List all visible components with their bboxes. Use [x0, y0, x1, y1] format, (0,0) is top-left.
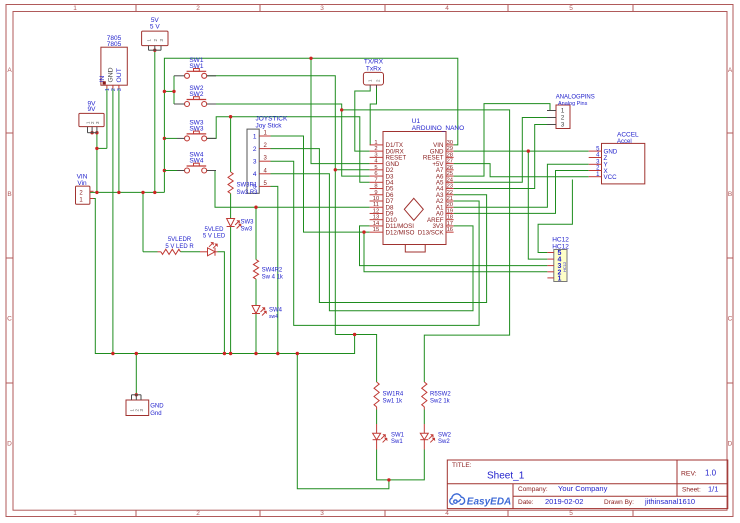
- svg-text:3: 3: [374, 152, 377, 158]
- connector GND: [126, 400, 149, 416]
- wire +5V to ACCEL VCC: [454, 164, 589, 177]
- svg-text:D12/MISO: D12/MISO: [386, 229, 415, 236]
- wire A1 to ACCEL Y: [454, 164, 589, 207]
- resistor 5VLEDR: [143, 251, 158, 253]
- svg-text:16: 16: [447, 227, 453, 233]
- wire 7805 GND down to ground trunk: [112, 89, 114, 354]
- svg-text:22: 22: [447, 190, 453, 196]
- svg-text:SW3R1: SW3R1: [237, 183, 258, 189]
- wire joystick pin1 to D12/MISO: [271, 136, 370, 232]
- svg-text:sw4: sw4: [269, 314, 278, 320]
- svg-text:Accel: Accel: [617, 139, 632, 145]
- svg-text:2: 2: [561, 115, 565, 122]
- svg-text:Sw2 1k: Sw2 1k: [430, 399, 451, 405]
- svg-text:Company:: Company:: [518, 486, 548, 493]
- svg-text:5 V: 5 V: [150, 24, 160, 31]
- svg-text:SW3: SW3: [189, 125, 203, 132]
- svg-text:R5SW2: R5SW2: [430, 391, 451, 397]
- wire joystick pin5 to ground trunk: [271, 186, 278, 353]
- wire ground trunk to GND connector: [135, 354, 137, 395]
- wire A6 to ANALOGPINS pin1: [454, 104, 556, 177]
- svg-text:SW1: SW1: [189, 63, 203, 70]
- svg-text:SW3: SW3: [241, 220, 255, 226]
- wire A0 to ACCEL X: [454, 171, 589, 214]
- svg-text:26: 26: [447, 165, 453, 171]
- svg-text:A: A: [728, 67, 733, 74]
- svg-text:20: 20: [447, 202, 453, 208]
- svg-text:2: 2: [253, 146, 257, 153]
- svg-text:Sw2: Sw2: [438, 439, 450, 445]
- wire SW4 right to D8: [206, 171, 369, 208]
- svg-text:TxRx: TxRx: [366, 66, 382, 73]
- switch SW3: [185, 136, 190, 141]
- svg-text:HC12: HC12: [552, 237, 569, 244]
- svg-text:2: 2: [196, 510, 200, 517]
- svg-text:6: 6: [374, 171, 377, 177]
- svg-text:Sheet:: Sheet:: [682, 487, 701, 494]
- svg-text:12: 12: [373, 208, 379, 214]
- svg-text:9: 9: [374, 190, 377, 196]
- svg-text:TITLE:: TITLE:: [452, 462, 472, 469]
- wire R5SW2 resistor to LED: [423, 407, 425, 410]
- wire SW1R4 resistor to LED: [376, 407, 378, 410]
- svg-text:5 V LED R: 5 V LED R: [165, 244, 194, 250]
- wire SW4R2 branch: [255, 207, 257, 259]
- svg-text:5: 5: [374, 165, 377, 171]
- wire SW1R4 loop: [335, 335, 376, 383]
- U1 diamond mark: [404, 198, 423, 220]
- svg-text:SW2: SW2: [189, 91, 203, 98]
- svg-text:Sw3: Sw3: [241, 227, 253, 233]
- svg-text:ANALOGPINS: ANALOGPINS: [556, 95, 595, 101]
- svg-text:4: 4: [445, 510, 449, 517]
- svg-text:5 V LED: 5 V LED: [203, 233, 226, 239]
- svg-text:Sw1 1k: Sw1 1k: [383, 399, 404, 405]
- connector TXRX: [363, 72, 383, 85]
- switch SW4: [185, 168, 190, 173]
- module HC12: [554, 250, 567, 282]
- svg-text:23: 23: [447, 184, 453, 190]
- resistor SW1R4: [374, 382, 379, 407]
- svg-text:1.0: 1.0: [705, 469, 717, 478]
- svg-text:TX/RX: TX/RX: [364, 59, 384, 66]
- connector 9V: [79, 113, 104, 126]
- svg-text:1: 1: [561, 108, 565, 115]
- svg-text:1: 1: [374, 140, 377, 146]
- svg-text:1: 1: [73, 510, 77, 517]
- svg-text:11: 11: [373, 202, 379, 208]
- wire A4 to ANALOGPINS pin3: [454, 125, 556, 189]
- svg-text:Sw1: Sw1: [391, 439, 403, 445]
- connector VIN: [76, 186, 90, 204]
- svg-text:4: 4: [445, 5, 449, 12]
- resistor SW4R2: [253, 260, 258, 280]
- wire VCC branch to HC12 pin5: [538, 180, 572, 253]
- svg-text:3: 3: [253, 159, 257, 166]
- svg-text:Drawn By:: Drawn By:: [604, 499, 634, 506]
- wire VIN trunk horizontal: [90, 191, 164, 193]
- svg-text:15: 15: [373, 227, 379, 233]
- svg-text:3: 3: [561, 122, 565, 129]
- svg-text:EasyEDA: EasyEDA: [467, 496, 511, 507]
- connector ANALOGPINS: [556, 105, 570, 129]
- U1 usb rectangle: [405, 245, 425, 253]
- svg-text:ACCEL: ACCEL: [617, 132, 639, 139]
- svg-text:D: D: [728, 441, 733, 448]
- svg-text:ARDUINO_NANO: ARDUINO_NANO: [412, 125, 464, 132]
- wire GND branch to HC12 pin4: [528, 151, 547, 259]
- svg-text:SW1R4: SW1R4: [383, 391, 404, 397]
- wire 7805 IN down: [106, 89, 108, 149]
- LED SW4: [252, 306, 260, 314]
- svg-text:28: 28: [447, 152, 453, 158]
- svg-text:3: 3: [117, 88, 123, 91]
- wire SW4 LED column: [255, 279, 257, 305]
- wire SW3 right trunk to D4: [206, 117, 369, 183]
- svg-text:B: B: [728, 191, 732, 198]
- svg-text:C: C: [728, 316, 733, 323]
- svg-text:3: 3: [320, 510, 324, 517]
- wire 3V3 to joystick pin4: [271, 174, 474, 311]
- svg-text:SW4R2: SW4R2: [262, 268, 283, 274]
- svg-text:Vin: Vin: [77, 180, 87, 187]
- wire 5V rail: [154, 50, 156, 192]
- wire top trunk drop to D2 GND pin: [311, 58, 370, 163]
- svg-text:27: 27: [447, 159, 453, 165]
- svg-text:2019-02-02: 2019-02-02: [545, 497, 583, 506]
- svg-text:SW4: SW4: [269, 308, 283, 314]
- wire 7805 OUT down to VIN trunk: [118, 89, 120, 193]
- svg-text:Sw3 R3: Sw3 R3: [237, 190, 259, 196]
- svg-text:HC12: HC12: [562, 261, 567, 272]
- svg-text:Gnd: Gnd: [150, 411, 161, 417]
- svg-text:24: 24: [447, 177, 454, 183]
- wire SW3R1 column top: [230, 117, 232, 172]
- svg-text:3: 3: [320, 5, 324, 12]
- title block: [447, 460, 728, 509]
- svg-text:GND: GND: [150, 404, 164, 410]
- module ACCEL: [602, 143, 645, 184]
- svg-text:21: 21: [447, 196, 453, 202]
- switch SW1: [185, 73, 190, 78]
- svg-text:Your Company: Your Company: [558, 484, 608, 493]
- svg-text:1: 1: [558, 275, 562, 282]
- IC U1 ARDUINO_NANO: [383, 132, 446, 245]
- svg-text:Analog Pins: Analog Pins: [558, 101, 588, 107]
- LED SW2: [423, 424, 425, 433]
- wire SW1 right to D2 and SW1R4: [206, 76, 335, 335]
- svg-text:13: 13: [373, 215, 379, 221]
- svg-text:5: 5: [569, 510, 573, 517]
- wire D11/MOSI to HC12 pin3: [360, 226, 548, 266]
- svg-text:5: 5: [569, 5, 573, 12]
- LED SW3: [227, 219, 235, 227]
- svg-text:B: B: [7, 191, 11, 198]
- svg-text:18: 18: [447, 215, 453, 221]
- wire VIN pin1 to ground trunk: [90, 199, 355, 354]
- resistor SW3R1: [228, 172, 233, 194]
- svg-text:4: 4: [253, 171, 257, 178]
- svg-text:19: 19: [447, 208, 453, 214]
- svg-text:1/1: 1/1: [708, 485, 718, 494]
- wire A3 to joystick pin2: [271, 149, 487, 303]
- svg-text:17: 17: [447, 221, 453, 227]
- svg-text:2: 2: [196, 5, 200, 12]
- svg-text:A: A: [7, 67, 12, 74]
- svg-text:JOYSTICK: JOYSTICK: [256, 116, 288, 123]
- connector JOYSTICK: [247, 129, 259, 193]
- wire 5VLED cathode to ground trunk: [218, 252, 225, 354]
- wire 9V rail to 7805 IN and VIN trunk: [96, 133, 98, 193]
- svg-text:7805: 7805: [107, 41, 122, 48]
- regulator 7805: [101, 47, 127, 85]
- wire HC12 pin2 branch: [364, 232, 547, 272]
- svg-text:Date:: Date:: [518, 499, 534, 506]
- wire SW2 trunk to R5SW2 resistor: [342, 110, 510, 382]
- wire SW2 right to D3: [206, 104, 369, 176]
- svg-text:OUT: OUT: [116, 68, 123, 82]
- EasyEDA logo: [450, 494, 465, 504]
- svg-text:Sw 4 1k: Sw 4 1k: [262, 275, 284, 281]
- wire bottom loop to LED cathodes: [297, 354, 389, 489]
- LED SW1: [376, 424, 378, 433]
- svg-text:7: 7: [374, 177, 377, 183]
- svg-text:25: 25: [447, 171, 453, 177]
- wire GND trunk from pin29 to ACCEL GND: [454, 150, 589, 152]
- svg-text:Sheet_1: Sheet_1: [487, 471, 525, 482]
- connector 5V: [142, 31, 168, 45]
- wire SW rail left: [164, 58, 457, 192]
- svg-text:Joy Stick: Joy Stick: [256, 123, 283, 130]
- LED 5VLED: [181, 251, 201, 253]
- junction dots: [153, 49, 156, 52]
- svg-text:5VLEDR: 5VLEDR: [168, 237, 192, 243]
- svg-text:VCC: VCC: [604, 174, 618, 181]
- svg-text:2: 2: [374, 146, 377, 152]
- wire TXRX pin2 to D1/TX: [370, 88, 376, 145]
- switch SW2: [185, 102, 190, 107]
- wire SW3 LED column to ground trunk: [230, 194, 232, 219]
- svg-text:29: 29: [447, 146, 453, 152]
- svg-text:9V: 9V: [88, 106, 97, 113]
- svg-text:C: C: [7, 316, 12, 323]
- svg-text:GND: GND: [107, 67, 114, 82]
- svg-text:30: 30: [447, 140, 453, 146]
- svg-text:D: D: [7, 441, 12, 448]
- svg-text:REV:: REV:: [681, 471, 697, 478]
- wire A2 to joystick pin3: [271, 161, 480, 325]
- wire TXRX pin1 to D0/RX: [355, 88, 370, 151]
- wire 5VLEDR riser: [142, 192, 144, 251]
- svg-text:SW2: SW2: [438, 433, 452, 439]
- svg-text:SW4: SW4: [189, 158, 203, 165]
- svg-text:jithinsanal1610: jithinsanal1610: [644, 497, 695, 506]
- svg-text:U1: U1: [412, 118, 421, 125]
- wire A5 to ANALOGPINS pin2: [454, 118, 556, 183]
- resistor R5SW2: [422, 382, 427, 407]
- svg-text:SW1: SW1: [391, 433, 405, 439]
- svg-text:8: 8: [374, 184, 377, 190]
- svg-text:1: 1: [253, 133, 257, 140]
- wire SW1/SW2 left link: [164, 90, 174, 92]
- svg-text:1: 1: [73, 5, 77, 12]
- svg-text:14: 14: [373, 221, 380, 227]
- svg-text:D13/SCK: D13/SCK: [418, 229, 445, 236]
- svg-text:10: 10: [373, 196, 379, 202]
- svg-text:5VLED: 5VLED: [204, 227, 224, 233]
